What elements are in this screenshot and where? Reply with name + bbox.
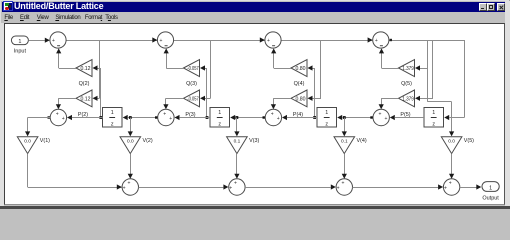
svg-text:+: + <box>341 180 344 186</box>
svg-text:1: 1 <box>18 39 21 45</box>
svg-text:+: + <box>337 185 340 191</box>
svg-text:+: + <box>271 112 274 118</box>
svg-text:+: + <box>385 116 388 122</box>
svg-text:Input: Input <box>14 48 27 54</box>
svg-text:z: z <box>325 121 328 127</box>
svg-text:1: 1 <box>111 110 114 116</box>
svg-text:+: + <box>123 185 126 191</box>
svg-text:1.379: 1.379 <box>402 97 414 103</box>
svg-text:1: 1 <box>218 110 221 116</box>
svg-text:0.0: 0.0 <box>448 139 455 145</box>
svg-text:+: + <box>56 112 59 118</box>
svg-text:+: + <box>163 112 166 118</box>
svg-text:z: z <box>218 121 221 127</box>
svg-text:-0.057: -0.057 <box>187 66 199 72</box>
svg-text:V(3): V(3) <box>249 138 259 144</box>
svg-text:0.0: 0.0 <box>127 139 134 145</box>
svg-text:Q(2): Q(2) <box>79 81 90 87</box>
svg-text:+: + <box>277 116 280 122</box>
svg-text:0.1: 0.1 <box>341 139 348 145</box>
svg-text:+: + <box>127 180 130 186</box>
svg-text:+: + <box>169 116 172 122</box>
svg-text:1: 1 <box>325 110 328 116</box>
svg-text:Q(4): Q(4) <box>294 81 305 87</box>
svg-text:z: z <box>432 121 435 127</box>
svg-text:+: + <box>379 112 382 118</box>
svg-text:0.1: 0.1 <box>234 139 241 145</box>
svg-text:z: z <box>111 121 114 127</box>
svg-text:0.12: 0.12 <box>80 66 90 72</box>
svg-text:V(4): V(4) <box>357 138 367 144</box>
svg-text:+: + <box>267 38 270 44</box>
svg-text:+: + <box>62 116 65 122</box>
svg-text:1: 1 <box>432 110 435 116</box>
svg-text:0.12: 0.12 <box>80 97 90 103</box>
svg-text:V(1): V(1) <box>40 138 50 144</box>
svg-text:1: 1 <box>489 186 492 192</box>
svg-text:V(2): V(2) <box>143 138 153 144</box>
svg-text:Output: Output <box>482 195 499 201</box>
svg-text:0.0: 0.0 <box>24 139 31 145</box>
svg-text:Q(5): Q(5) <box>401 81 412 87</box>
svg-text:+: + <box>229 185 232 191</box>
svg-text:0.80: 0.80 <box>295 66 305 72</box>
svg-text:+: + <box>52 38 55 44</box>
svg-text:V(5): V(5) <box>464 138 474 144</box>
svg-text:+: + <box>444 185 447 191</box>
svg-text:+: + <box>234 180 237 186</box>
svg-text:Q(3): Q(3) <box>186 81 197 87</box>
svg-text:1.379: 1.379 <box>402 66 414 72</box>
svg-text:-0.057: -0.057 <box>187 97 199 103</box>
svg-text:+: + <box>449 180 452 186</box>
svg-text:0.80: 0.80 <box>295 97 305 103</box>
svg-text:+: + <box>160 38 163 44</box>
svg-text:+: + <box>375 38 378 44</box>
